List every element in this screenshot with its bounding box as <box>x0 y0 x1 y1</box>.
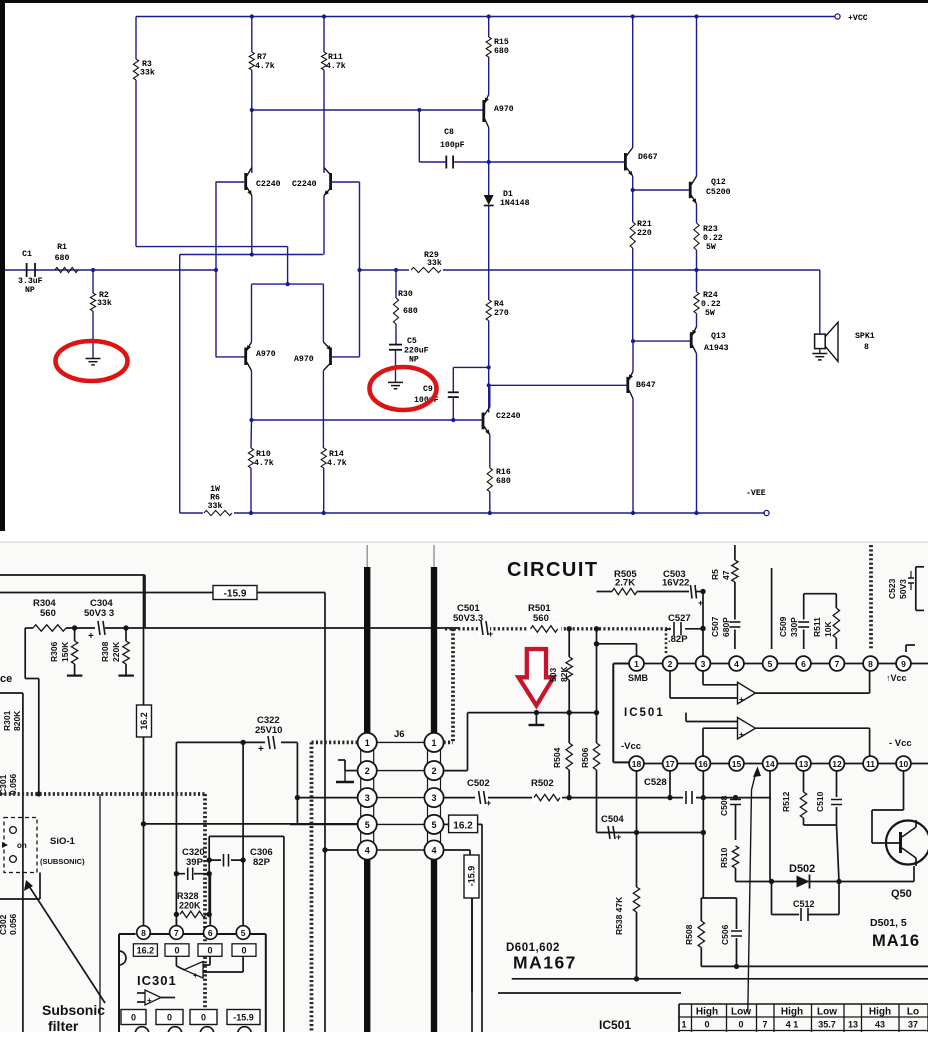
svg-text:Q12: Q12 <box>711 178 726 187</box>
svg-text:ce: ce <box>0 673 12 685</box>
svg-text:220K: 220K <box>179 901 201 911</box>
svg-text:2: 2 <box>431 766 436 776</box>
svg-text:R5: R5 <box>710 569 720 580</box>
svg-text:47: 47 <box>721 570 731 580</box>
svg-text:+: + <box>88 631 94 642</box>
svg-text:+: + <box>193 971 198 980</box>
svg-text:0: 0 <box>201 1013 206 1023</box>
svg-text:R301: R301 <box>2 710 12 731</box>
svg-text:MA16: MA16 <box>872 932 920 950</box>
svg-text:100pF: 100pF <box>440 141 465 150</box>
svg-text:16.2: 16.2 <box>139 712 149 730</box>
svg-text:17: 17 <box>665 759 675 769</box>
svg-text:0: 0 <box>738 1020 743 1030</box>
svg-text:R506: R506 <box>580 747 590 768</box>
svg-text:50V3 3: 50V3 3 <box>84 608 114 619</box>
svg-text:560: 560 <box>40 608 56 619</box>
svg-text:IC501: IC501 <box>624 707 665 719</box>
svg-text:C512: C512 <box>793 899 815 909</box>
svg-text:+: + <box>739 695 744 704</box>
svg-text:2.7K: 2.7K <box>615 578 635 589</box>
svg-text:R7: R7 <box>257 53 267 62</box>
svg-text:J6: J6 <box>394 729 405 740</box>
svg-text:4.7k: 4.7k <box>327 458 347 468</box>
svg-text:R538 47K: R538 47K <box>614 896 624 935</box>
svg-text:R502: R502 <box>531 778 554 789</box>
svg-text:680: 680 <box>496 477 511 486</box>
svg-text:C1: C1 <box>22 250 32 259</box>
svg-text:12: 12 <box>832 759 842 769</box>
svg-text:R30: R30 <box>398 290 413 299</box>
svg-text:-Vcc: -Vcc <box>621 741 641 752</box>
svg-text:82P: 82P <box>253 857 271 868</box>
svg-text:25V10: 25V10 <box>255 725 282 736</box>
svg-text:Low: Low <box>731 1007 751 1018</box>
svg-text:15: 15 <box>732 759 742 769</box>
svg-text:NP: NP <box>409 356 419 365</box>
svg-text:14: 14 <box>765 759 775 769</box>
svg-text:C302: C302 <box>0 914 8 935</box>
svg-text:13: 13 <box>799 759 809 769</box>
svg-text:+: + <box>616 832 621 842</box>
svg-text:C5: C5 <box>407 337 417 346</box>
svg-text:6: 6 <box>208 928 213 938</box>
svg-text:4 1: 4 1 <box>786 1020 799 1030</box>
svg-text:IC301: IC301 <box>137 973 177 988</box>
svg-text:High: High <box>869 1007 891 1018</box>
svg-text:R511: R511 <box>812 617 822 637</box>
svg-text:6: 6 <box>801 659 806 669</box>
svg-text:11: 11 <box>866 759 875 769</box>
svg-text:680: 680 <box>55 254 70 263</box>
svg-text:0: 0 <box>174 946 179 956</box>
svg-text:↑Vcc: ↑Vcc <box>886 673 907 683</box>
svg-text:16.2: 16.2 <box>453 821 473 832</box>
svg-text:R14: R14 <box>329 450 344 459</box>
svg-text:1: 1 <box>681 1020 686 1030</box>
svg-text:C2240: C2240 <box>292 180 317 189</box>
svg-text:4.7k: 4.7k <box>254 458 274 468</box>
svg-text:IC501: IC501 <box>599 1018 631 1032</box>
svg-text:C523: C523 <box>887 578 897 599</box>
svg-text:18: 18 <box>632 759 642 769</box>
svg-text:.82P: .82P <box>668 634 688 645</box>
svg-text:R21: R21 <box>637 220 652 229</box>
svg-text:D667: D667 <box>638 153 658 162</box>
svg-text:16: 16 <box>698 759 708 769</box>
svg-text:SiO-1: SiO-1 <box>50 836 76 847</box>
svg-text:R512: R512 <box>781 791 791 812</box>
svg-text:+VCC: +VCC <box>848 14 868 23</box>
svg-text:Q50: Q50 <box>891 888 912 900</box>
svg-text:13: 13 <box>848 1020 858 1030</box>
svg-text:33k: 33k <box>427 258 442 268</box>
svg-text:220: 220 <box>637 229 652 238</box>
svg-text:680P: 680P <box>721 617 731 637</box>
svg-text:C528: C528 <box>644 777 667 788</box>
svg-text:0: 0 <box>167 1013 172 1023</box>
svg-text:- Vcc: - Vcc <box>889 738 912 749</box>
svg-text:C2240: C2240 <box>256 180 281 189</box>
svg-text:R23: R23 <box>703 225 718 234</box>
svg-text:33k: 33k <box>208 501 223 511</box>
svg-text:9: 9 <box>901 659 906 669</box>
svg-text:C509: C509 <box>778 616 788 637</box>
svg-text:R4: R4 <box>494 300 504 309</box>
svg-text:R510: R510 <box>719 847 729 868</box>
svg-text:50V3.3: 50V3.3 <box>453 613 483 624</box>
svg-text:C508: C508 <box>719 795 729 816</box>
svg-text:NP: NP <box>25 286 35 295</box>
svg-text:37: 37 <box>908 1020 918 1030</box>
svg-text:0.22: 0.22 <box>703 234 723 243</box>
svg-text:R24: R24 <box>703 291 718 300</box>
svg-text:33k: 33k <box>97 298 112 308</box>
svg-text:C502: C502 <box>467 778 490 789</box>
svg-text:3.3uF: 3.3uF <box>18 277 43 286</box>
svg-text:820K: 820K <box>12 710 22 731</box>
svg-text:5: 5 <box>431 820 436 830</box>
svg-text:7: 7 <box>835 659 840 669</box>
svg-text:SMB: SMB <box>628 673 649 683</box>
svg-text:R504: R504 <box>552 747 562 768</box>
svg-text:filter: filter <box>48 1018 79 1032</box>
svg-text:C5200: C5200 <box>706 188 731 197</box>
svg-text:+: + <box>486 798 491 808</box>
svg-text:R308: R308 <box>100 641 110 662</box>
svg-text:SPK1: SPK1 <box>855 332 875 341</box>
svg-text:0.056: 0.056 <box>8 913 18 935</box>
svg-text:C2240: C2240 <box>496 412 521 421</box>
svg-text:0: 0 <box>704 1020 709 1030</box>
svg-text:5: 5 <box>768 659 773 669</box>
svg-text:503: 503 <box>548 668 558 682</box>
svg-text:3: 3 <box>701 659 706 669</box>
svg-text:560: 560 <box>533 613 549 624</box>
svg-text:R1: R1 <box>57 243 67 252</box>
svg-text:+: + <box>147 996 152 1005</box>
svg-text:10K: 10K <box>823 621 833 637</box>
svg-text:4.7k: 4.7k <box>326 61 346 71</box>
svg-text:R15: R15 <box>494 38 509 47</box>
svg-text:A970: A970 <box>256 350 276 359</box>
svg-text:0.056: 0.056 <box>8 773 18 795</box>
svg-text:C9: C9 <box>423 385 433 394</box>
svg-text:82K: 82K <box>559 666 569 682</box>
svg-text:C507: C507 <box>710 616 720 637</box>
svg-text:7: 7 <box>174 928 179 938</box>
svg-text:Q13: Q13 <box>711 332 726 341</box>
svg-text:270: 270 <box>494 309 509 318</box>
svg-text:5W: 5W <box>706 243 716 252</box>
svg-text:8: 8 <box>864 343 869 352</box>
svg-text:5: 5 <box>365 820 370 830</box>
svg-text:220K: 220K <box>111 641 121 662</box>
svg-text:16.2: 16.2 <box>137 946 155 956</box>
svg-text:R10: R10 <box>256 450 271 459</box>
svg-text:+: + <box>488 629 493 639</box>
svg-text:C506: C506 <box>720 924 730 945</box>
svg-text:10: 10 <box>899 759 909 769</box>
svg-text:2: 2 <box>668 659 673 669</box>
svg-text:1: 1 <box>365 738 370 748</box>
svg-text:Subsonic: Subsonic <box>42 1002 105 1018</box>
svg-text:3: 3 <box>365 793 370 803</box>
svg-text:2: 2 <box>365 766 370 776</box>
svg-text:+: + <box>739 730 744 739</box>
svg-text:7: 7 <box>762 1020 767 1030</box>
svg-text:Lo: Lo <box>907 1007 919 1018</box>
svg-text:C8: C8 <box>444 128 454 137</box>
svg-text:R508: R508 <box>684 924 694 945</box>
svg-text:220uF: 220uF <box>404 347 429 356</box>
svg-text:+: + <box>258 744 264 755</box>
svg-text:330P: 330P <box>789 617 799 637</box>
svg-text:C527: C527 <box>668 613 691 624</box>
svg-text:39P: 39P <box>186 857 204 868</box>
svg-text:D501, 5: D501, 5 <box>870 917 907 929</box>
svg-text:4: 4 <box>365 846 370 856</box>
svg-text:MA167: MA167 <box>513 953 577 973</box>
svg-text:C301: C301 <box>0 774 8 795</box>
svg-text:High: High <box>696 1007 718 1018</box>
svg-text:0.22: 0.22 <box>701 300 721 309</box>
svg-text:680: 680 <box>403 307 418 316</box>
svg-text:5W: 5W <box>705 309 715 318</box>
svg-text:43: 43 <box>875 1020 885 1030</box>
svg-text:-15.9: -15.9 <box>467 866 477 887</box>
svg-text:-15.9: -15.9 <box>233 1013 254 1023</box>
svg-text:1: 1 <box>634 659 639 669</box>
svg-text:R328: R328 <box>177 891 199 901</box>
svg-text:D502: D502 <box>789 863 815 875</box>
svg-text:High: High <box>781 1007 803 1018</box>
svg-text:1N4148: 1N4148 <box>500 199 530 208</box>
svg-text:16V22: 16V22 <box>662 578 689 589</box>
svg-text:(SUBSONIC): (SUBSONIC) <box>40 857 85 866</box>
svg-text:A970: A970 <box>494 105 514 114</box>
svg-text:150K: 150K <box>60 641 70 662</box>
svg-text:C504: C504 <box>601 814 624 825</box>
svg-text:4: 4 <box>734 659 739 669</box>
svg-text:8: 8 <box>141 928 146 938</box>
svg-text:R306: R306 <box>49 641 59 662</box>
svg-text:3: 3 <box>431 793 436 803</box>
svg-text:R11: R11 <box>328 53 343 62</box>
svg-text:5: 5 <box>241 928 246 938</box>
svg-text:1: 1 <box>431 738 436 748</box>
svg-text:-VEE: -VEE <box>746 489 766 498</box>
svg-text:R16: R16 <box>496 468 511 477</box>
svg-text:4.7k: 4.7k <box>255 61 275 71</box>
svg-text:Low: Low <box>817 1007 837 1018</box>
svg-text:CIRCUIT: CIRCUIT <box>507 559 599 581</box>
svg-text:-15.9: -15.9 <box>224 589 247 600</box>
svg-text:B647: B647 <box>636 381 656 390</box>
svg-text:0: 0 <box>207 946 212 956</box>
svg-text:680: 680 <box>494 47 509 56</box>
svg-text:8: 8 <box>868 659 873 669</box>
svg-text:on: on <box>17 841 27 850</box>
svg-text:D1: D1 <box>503 190 513 199</box>
svg-text:35.7: 35.7 <box>818 1020 836 1030</box>
svg-text:50V3: 50V3 <box>898 579 908 599</box>
svg-text:A1943: A1943 <box>704 344 729 353</box>
svg-text:A970: A970 <box>294 355 314 364</box>
svg-text:0: 0 <box>241 946 246 956</box>
svg-text:33k: 33k <box>140 68 155 78</box>
svg-text:C510: C510 <box>815 791 825 812</box>
svg-text:4: 4 <box>431 846 436 856</box>
svg-text:0: 0 <box>131 1013 136 1023</box>
